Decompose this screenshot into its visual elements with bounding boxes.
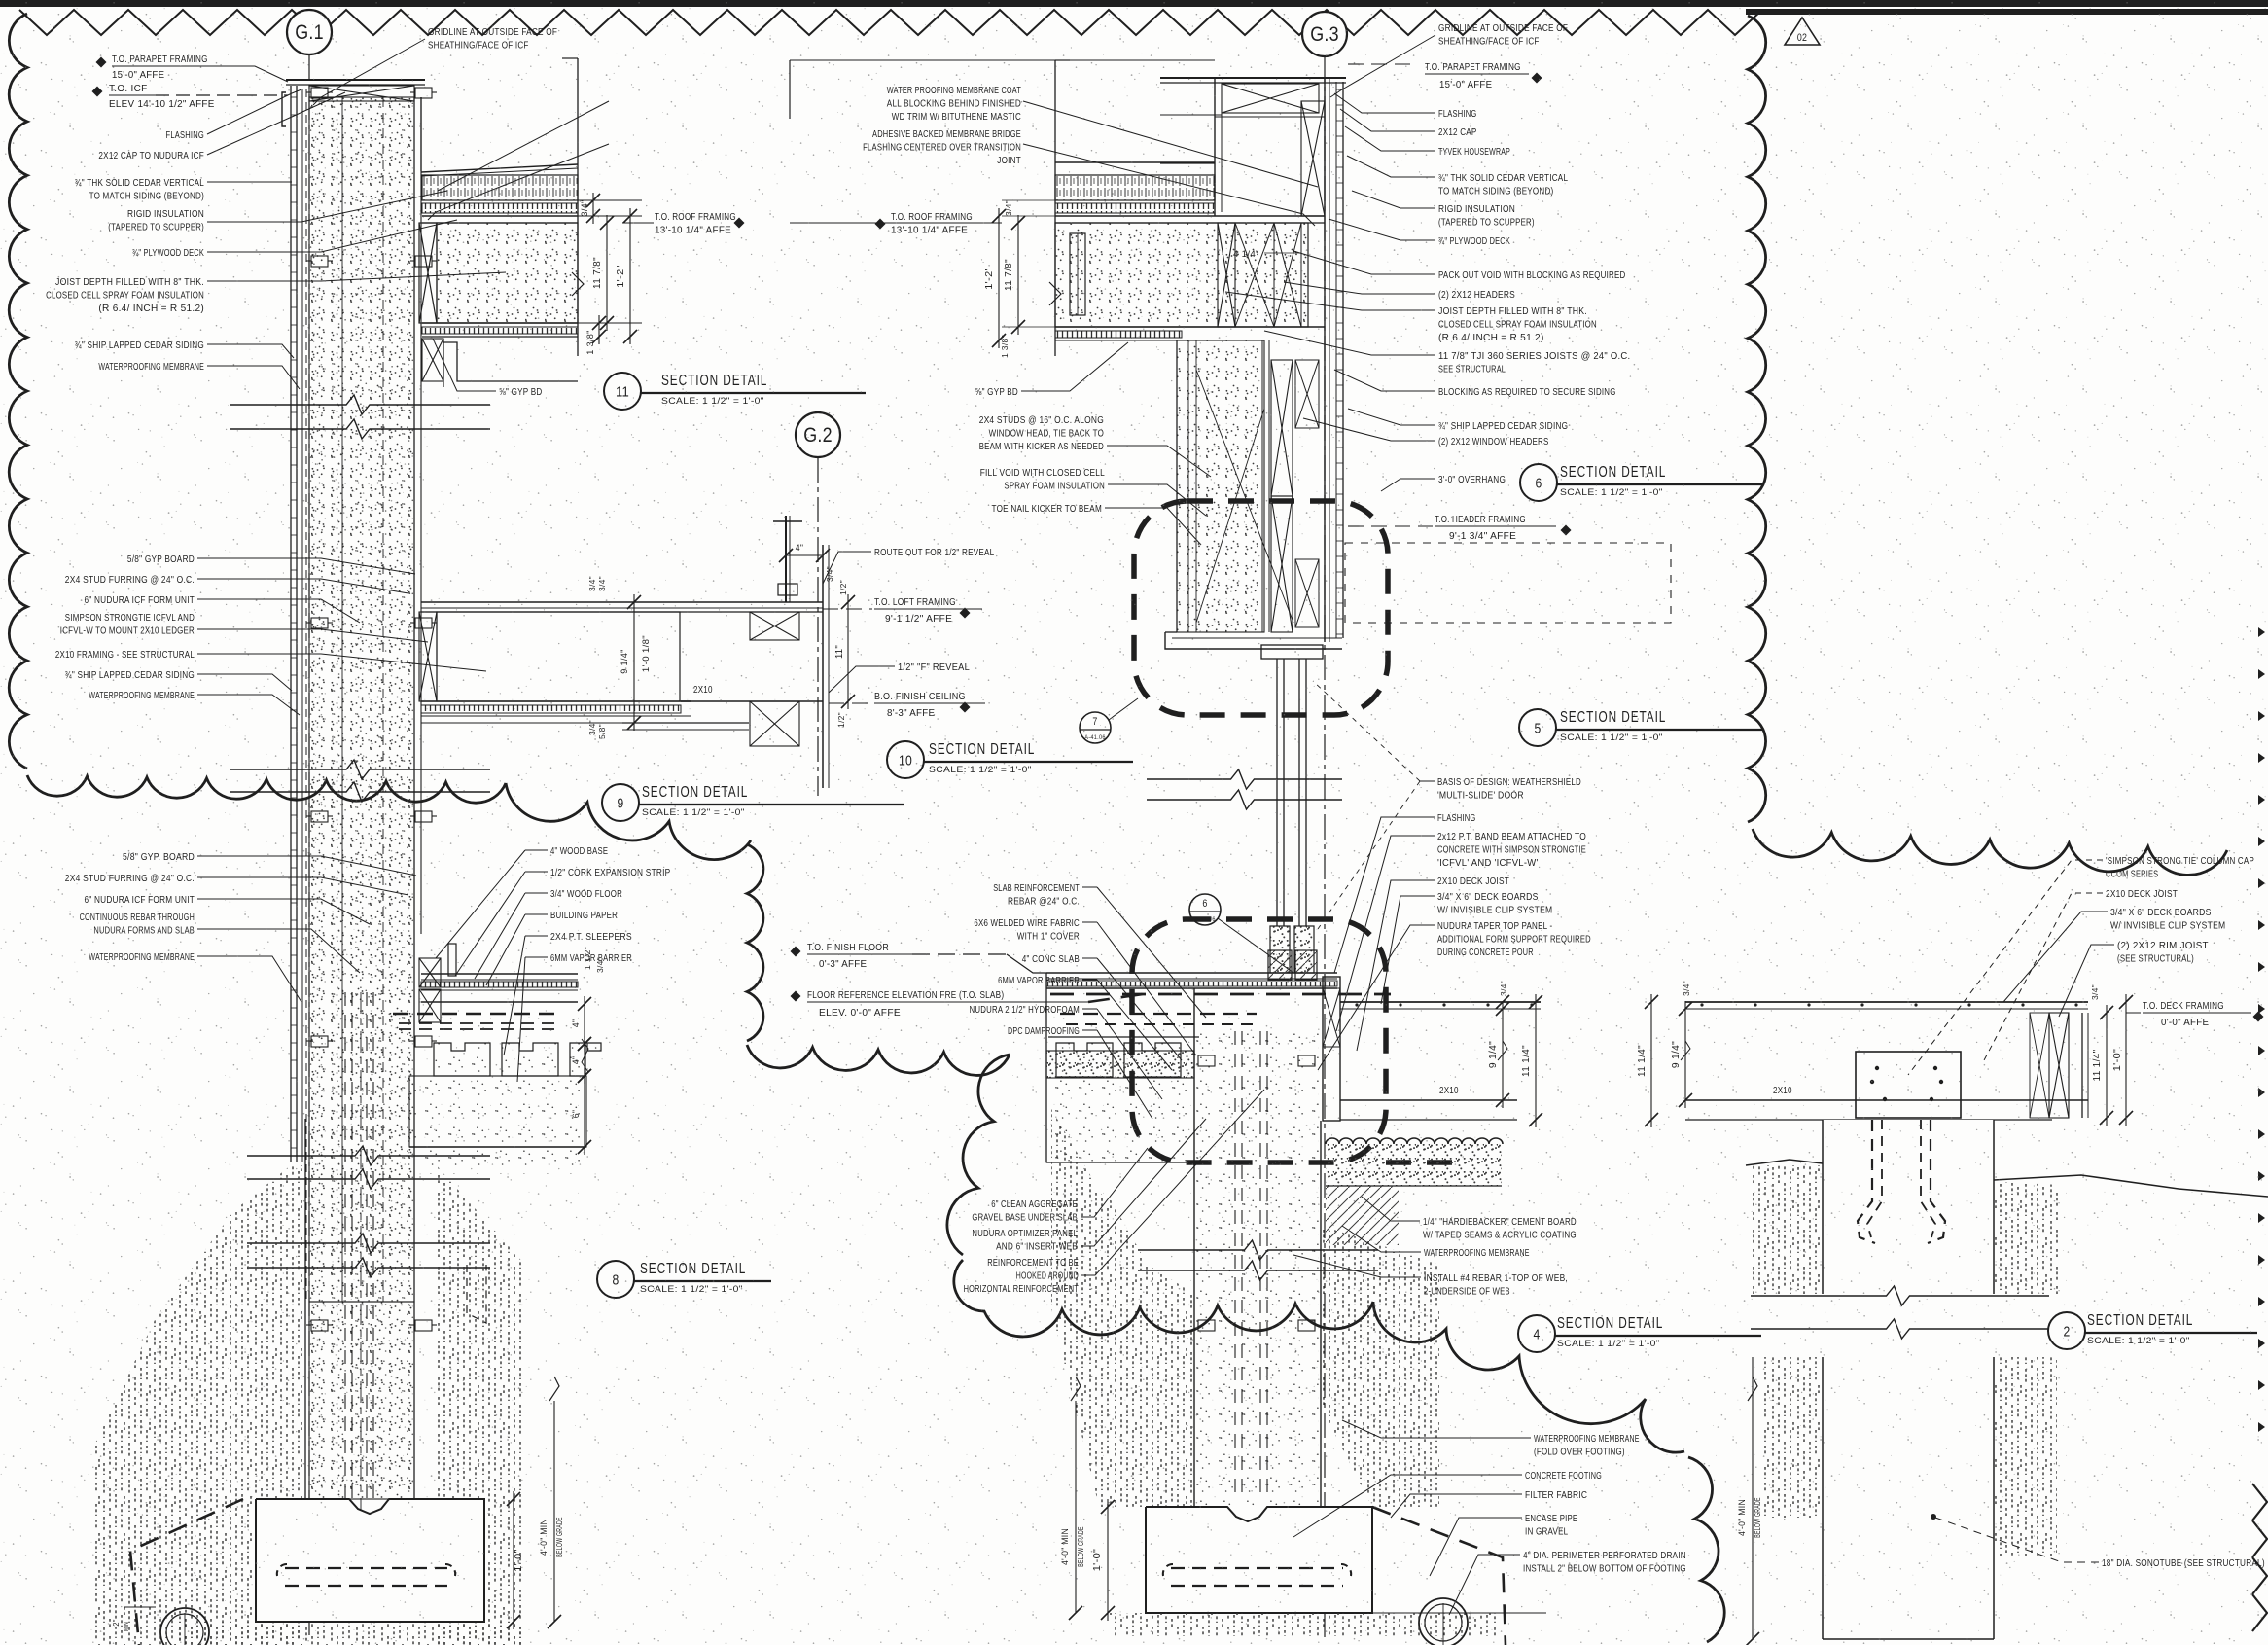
- section detail 5 callout: [1519, 709, 1556, 746]
- revision cloud: bottom chain across footing: [954, 1260, 1373, 1337]
- G.1 slab break edge: [582, 1039, 588, 1078]
- G.3 roof leaders from left labels: [1023, 101, 1318, 187]
- G.3 wall diagonal kicker: [1196, 370, 1293, 623]
- earth hatch at pier: [1751, 1165, 1823, 1294]
- G.3 double joist X: [1235, 223, 1274, 327]
- G.3 roof plywood deck: [1055, 215, 1325, 217]
- G.2 dims: [786, 554, 823, 556]
- revision cloud: right vertical edge: [1748, 16, 1766, 822]
- grade line right of pier: [1994, 1175, 2268, 1197]
- pier rebar hooks: [1858, 1120, 1875, 1243]
- pier left dim: [1752, 1357, 1754, 1639]
- G.3 below-grade wall: [1193, 988, 1195, 1507]
- grade line left of pier: [1746, 1160, 1823, 1165]
- G.1 wall inner face / gyp: [413, 97, 415, 1499]
- T.O. FINISH FLOOR note: [791, 947, 801, 957]
- middle deck 2x10 joist: [1340, 1099, 1517, 1101]
- section detail 8 callout: [597, 1261, 634, 1298]
- section detail 9 callout: [602, 784, 639, 821]
- G.3 earth hatch right: [1323, 1226, 1439, 1507]
- G.2 ceiling below: [622, 722, 749, 724]
- G.1 roof right cut edge: [577, 58, 579, 356]
- G.1 below-grade breaks: [247, 1146, 490, 1165]
- G.1 roof joist bay w/ spray foam: [437, 223, 578, 323]
- middle deck dims: [1502, 1001, 1504, 1108]
- G.3 band beam: [1323, 977, 1340, 1121]
- middle deck boards: [1340, 1001, 1541, 1003]
- G.2 floor blocking: [750, 612, 799, 640]
- gridline G.3 bubble: [1302, 12, 1347, 56]
- G.3 door sill hatched blocks: [1268, 950, 1292, 980]
- G.1 footing dims right: [513, 1491, 514, 1629]
- G.2 loft floor: [681, 601, 823, 603]
- G.3 right label leaders: [1334, 93, 1435, 113]
- G.3 finish floor assembly: [1046, 972, 1337, 974]
- right deck right dims: [2106, 1005, 2108, 1126]
- G.1 roof dims: [578, 215, 642, 217]
- dashed overhang flag: [1345, 543, 1671, 623]
- revision cloud: vertical below section 9: [747, 844, 763, 1041]
- G.1 concrete footing: [256, 1499, 484, 1622]
- G.3 parapet cap: [1160, 77, 1346, 79]
- G.1 earth hatch right of wall: [434, 1162, 525, 1645]
- G.3 window header kings: [1261, 340, 1263, 632]
- detail 6 ref bubble: [1189, 894, 1221, 925]
- G.1 floor dims right: [584, 996, 585, 1052]
- right deck joist bottom: [1685, 1099, 2088, 1101]
- G.2 wall edge: [822, 545, 824, 788]
- revision cloud: step down to slab region: [947, 1055, 1010, 1255]
- detail 7 ref bubble: [1080, 712, 1111, 743]
- G.3 footing bottom line ext: [1372, 1612, 1546, 1614]
- FLOOR REFERENCE ELEVATION note: [791, 991, 801, 1002]
- revision cloud: step east: [747, 1045, 1010, 1075]
- G.2 railing rod: [785, 516, 787, 602]
- revision cloud: left edge: [9, 14, 27, 769]
- G.3 slab gravel base: [1046, 1078, 1194, 1162]
- G.3 sleepers: [1048, 1036, 1199, 1038]
- G.3 roof ceiling: [1055, 326, 1325, 328]
- pier break lines: [1751, 1286, 2049, 1305]
- G.1 main floor wood floor: [421, 973, 578, 975]
- G.3 roof dims (left): [1002, 215, 1055, 217]
- G.1 ICF form ties: [311, 88, 328, 98]
- G.3 T.O. PARAPET note: [1348, 63, 1418, 65]
- sheet top border right segment: [1746, 9, 2268, 15]
- sheet top border bar: [0, 0, 2268, 7]
- G.1 wall break lines: [230, 395, 490, 414]
- G.1 roof rim blocking: [419, 223, 437, 323]
- G.1 earth hatch left of wall: [92, 1165, 305, 1645]
- G.3 left cut edge: [1054, 60, 1056, 356]
- G.3 slab rebar dashes: [1060, 1013, 1257, 1015]
- right pier: [1823, 1120, 1994, 1639]
- gravel under deck: [1326, 1138, 1503, 1144]
- G.1 roof rigid insulation (tapered): [421, 164, 578, 172]
- G.3 drain pipe: [1419, 1598, 1468, 1645]
- right deck left dims: [1650, 994, 1652, 1127]
- right deck X blocking: [2049, 1013, 2069, 1118]
- G.1 below-grade wall dashed layers: [344, 992, 346, 1498]
- G.3 window header XX: [1271, 360, 1293, 496]
- gridline G.1 vertical dash-dot: [308, 54, 310, 1639]
- G.1 roof: transition joint leaders crossing: [438, 101, 609, 191]
- sheet top sawtooth edge: [19, 10, 1762, 35]
- G.3 roof 2x12 headers: [1070, 233, 1085, 315]
- G.3 door panels: [1276, 659, 1278, 926]
- G.3 slab edge left: [1045, 973, 1047, 1162]
- gridline G.2 bubble: [796, 412, 840, 457]
- section detail 11 callout: [604, 373, 641, 410]
- revision cloud: diagonal step down: [506, 783, 751, 860]
- G.3 footing rebar: [1171, 1567, 1343, 1569]
- G.3 roof rigid insulation: [1055, 161, 1215, 163]
- gridline G.2 vertical dash-dot: [817, 457, 819, 796]
- right sheet edge zigzag: [2252, 1484, 2267, 1631]
- G.1 roof plywood deck: [422, 215, 578, 217]
- G.1 loft dims: [646, 601, 681, 603]
- G.1 slab base/gravel: [409, 1076, 586, 1147]
- G.1 perimeter drain boundary: [130, 1499, 243, 1645]
- compact fill hatch below gravel: [1326, 1186, 1399, 1245]
- G.1 roof parapet inner face: [420, 97, 422, 171]
- G.1 parapet flashing detail: [282, 92, 286, 126]
- G.1 wood base: [448, 944, 456, 976]
- G.1 roof ceiling: [422, 322, 578, 324]
- G.1 loft floor assembly: [421, 601, 681, 603]
- G.3 parapet right face layers: [1324, 78, 1326, 642]
- revision triangle 02: [1785, 18, 1820, 45]
- G.3 door panel bottom rails: [1270, 926, 1290, 973]
- G.1 left annotation labels: [96, 57, 107, 68]
- G.1 footing rebar: [285, 1567, 447, 1569]
- G.3 heavy dashed FRE line: [1050, 993, 1391, 996]
- section detail 2 callout: [2048, 1312, 2085, 1349]
- G.3 parapet horizontal lines: [1160, 114, 1222, 116]
- G.1 2" MIN dim: [124, 1606, 156, 1608]
- G.3 window head soffit: [1165, 632, 1342, 649]
- section detail 4 callout: [1518, 1315, 1555, 1352]
- detail 6 dashed boundary: [1132, 919, 1386, 1162]
- G.3 concrete footing: [1146, 1507, 1372, 1613]
- G.3 top frame lines: [790, 59, 1215, 61]
- gridline G.1 bubble: [287, 10, 332, 54]
- revision cloud: bottom of top-left region: [27, 775, 506, 803]
- right sheet edge tick marks: [2258, 627, 2265, 637]
- revision cloud: bottom-right chain: [1753, 829, 2227, 875]
- G.3 perimeter drain boundary: [1372, 1507, 1506, 1645]
- right deck boards: [1685, 1001, 2088, 1003]
- G.1 slab rebar dashes: [393, 1013, 558, 1016]
- G.3 roof blocking columns: [1218, 223, 1235, 327]
- G.3 door break lines: [1147, 769, 1342, 789]
- G.1 wall ICF cavity stipple: [309, 97, 414, 1302]
- section detail 6 callout: [1520, 464, 1557, 501]
- revision cloud: diagonal down-right: [1373, 1302, 1684, 1452]
- G.1 sleepers: [434, 1043, 490, 1076]
- gridline G.3 vertical dash-dot: [1324, 56, 1326, 1639]
- G.1 floor blocking at wall: [419, 958, 441, 987]
- G.1 drain pipe: [160, 1608, 209, 1645]
- revision cloud: tail to sheet bottom: [1688, 1457, 1724, 1642]
- detail 7 dashed boundary box: [1134, 501, 1388, 715]
- section detail 10 callout: [887, 741, 924, 778]
- column cap: [1856, 1052, 1961, 1118]
- G.3 wall spray foam cavity: [1177, 340, 1264, 632]
- G.3 earth hatch left: [1051, 1109, 1109, 1507]
- G.3 below-grade breaks: [1138, 1240, 1378, 1260]
- G.3 door head frame: [1261, 645, 1323, 659]
- G.1 parapet cap blocking: [286, 79, 425, 81]
- G.3 roof joist bay: [1055, 223, 1308, 327]
- G.1 hydrofoam hook detail: [467, 1265, 486, 1323]
- G.1 wall siding/membrane layers: [290, 86, 292, 1162]
- G.3 parapet box: [1214, 78, 1216, 216]
- G.3 wall ties: [1198, 1055, 1215, 1066]
- G.3 footing dims left: [1107, 1499, 1109, 1621]
- G.1 blocking below roof at wall: [422, 339, 443, 381]
